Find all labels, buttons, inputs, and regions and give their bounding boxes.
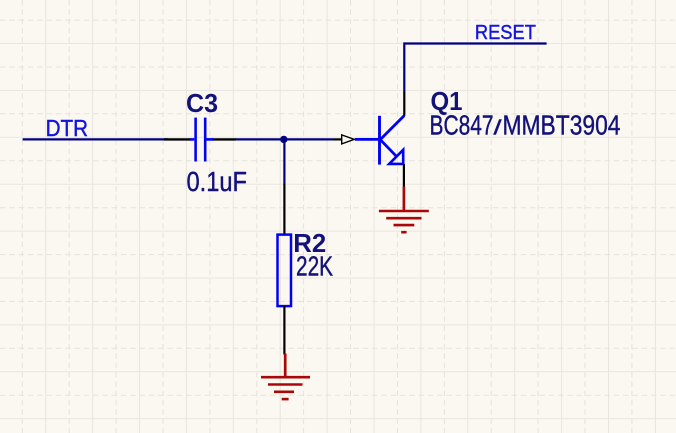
svg-text:DTR: DTR	[46, 115, 89, 141]
svg-text:/: /	[494, 116, 502, 139]
wire	[283, 139, 285, 184]
svg-text:BC847: BC847	[430, 109, 494, 140]
junction	[280, 136, 287, 143]
wire	[23, 138, 168, 140]
pin Q1 collector	[403, 91, 405, 116]
svg-text:RESET: RESET	[475, 21, 536, 44]
svg-text:0.1uF: 0.1uF	[187, 166, 248, 197]
wire	[404, 44, 546, 92]
svg-text:C3: C3	[186, 88, 218, 118]
ground	[379, 187, 429, 233]
pin C3.2	[212, 138, 236, 140]
input arrow	[342, 135, 355, 144]
wire	[235, 138, 334, 140]
pin R2.2	[283, 306, 285, 355]
pin Q1 base	[334, 138, 342, 140]
pin C3.1	[164, 138, 191, 140]
pin R2.1	[283, 184, 285, 235]
ground	[261, 354, 310, 400]
capacitor C3	[190, 118, 214, 162]
svg-text:MMBT3904: MMBT3904	[503, 109, 621, 140]
pin Q1 emitter	[403, 164, 405, 188]
svg-text:22K: 22K	[296, 251, 333, 282]
transistor Q1	[355, 116, 404, 165]
resistor R2	[278, 235, 292, 307]
